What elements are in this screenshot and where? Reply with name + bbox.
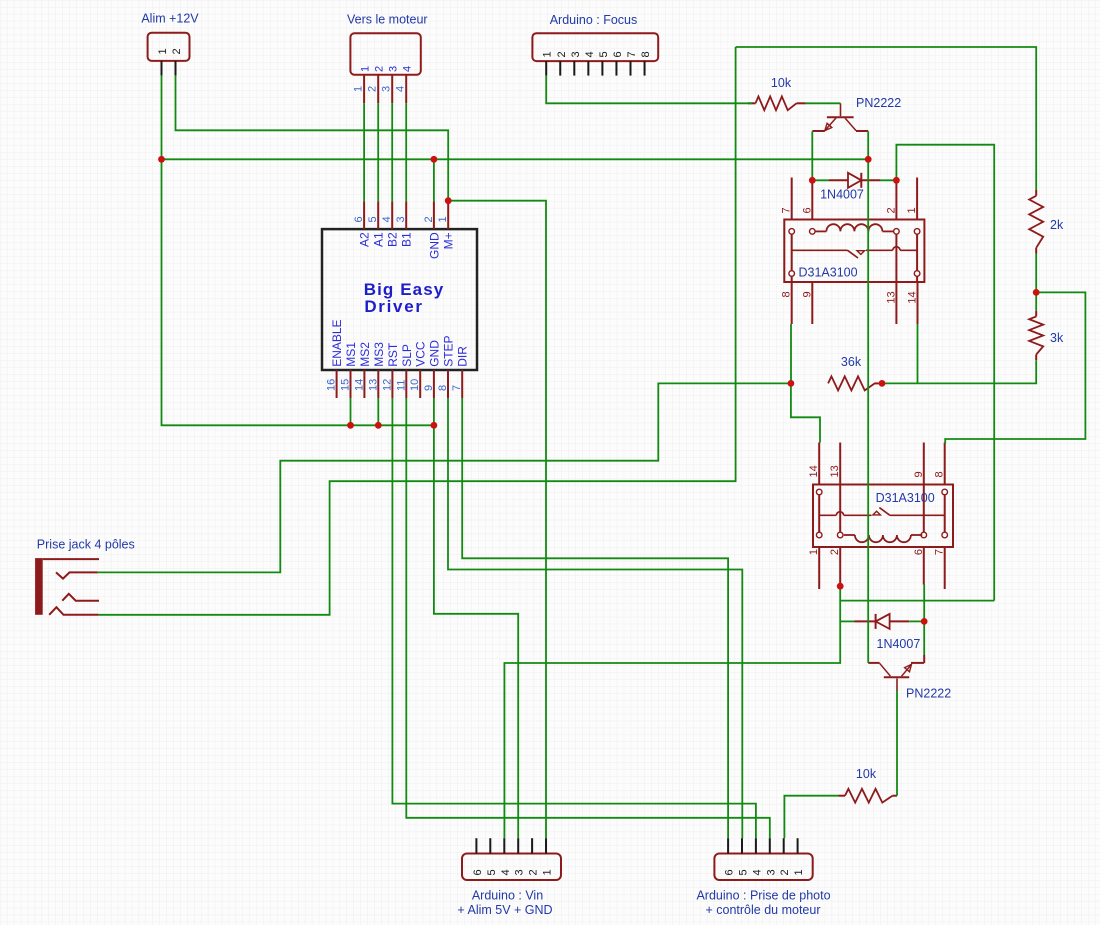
svg-text:3: 3 xyxy=(388,66,400,72)
wire between 2k and 3k xyxy=(1035,254,1037,311)
resistor R2 2k xyxy=(1029,190,1043,254)
relay K2 top pin leads xyxy=(819,443,945,485)
connector J1 pin names 1 2 xyxy=(157,48,183,54)
svg-text:3: 3 xyxy=(765,869,777,875)
relay K1 bottom pin leads xyxy=(792,282,918,324)
wire 3k bottom to 36k row xyxy=(882,360,1036,383)
wire moteur pin 3 to B2 xyxy=(391,103,393,201)
wire Focus pin 1 to R 10k xyxy=(546,76,752,104)
label R2 2k xyxy=(1050,218,1064,232)
svg-text:5: 5 xyxy=(738,869,750,875)
svg-text:3k: 3k xyxy=(1050,331,1064,345)
ic U1 top pin numbers xyxy=(353,216,449,222)
svg-text:4: 4 xyxy=(395,86,407,92)
svg-text:GND: GND xyxy=(427,232,441,259)
label R5 10k xyxy=(856,767,877,781)
connector J3 pin names 1-8 xyxy=(542,51,652,57)
svg-text:2: 2 xyxy=(528,869,540,875)
svg-text:6: 6 xyxy=(724,869,736,875)
wire moteur pin 4 to B1 xyxy=(405,103,407,201)
relay K2 pin circles xyxy=(816,489,947,538)
relay K2 box xyxy=(813,485,953,548)
connector J3 Arduino Focus box xyxy=(532,33,658,61)
wire RST to photo pin 4 xyxy=(392,398,756,838)
svg-text:RST: RST xyxy=(386,342,400,367)
svg-text:14: 14 xyxy=(353,379,365,391)
ic U1 top pin leads xyxy=(364,201,448,229)
svg-text:Driver: Driver xyxy=(364,297,423,316)
svg-text:10k: 10k xyxy=(771,76,792,90)
svg-text:1: 1 xyxy=(906,207,918,213)
svg-text:13: 13 xyxy=(829,465,841,477)
svg-text:4: 4 xyxy=(402,66,414,72)
label Q1 PN2222 xyxy=(856,96,901,110)
svg-text:7: 7 xyxy=(934,549,946,555)
svg-text:7: 7 xyxy=(626,51,638,57)
wire D2 stub right xyxy=(909,620,924,622)
label R4 36k xyxy=(841,355,862,369)
transistor Q2 PN2222 xyxy=(868,655,924,691)
ic U1 bottom pin leads xyxy=(337,370,463,398)
wire MS1 to GND rail xyxy=(350,398,352,425)
wire divider tap to relay2 pin 8 xyxy=(945,292,1085,443)
svg-text:MS2: MS2 xyxy=(358,342,372,367)
resistor R3 3k xyxy=(1029,311,1043,360)
svg-text:D31A3100: D31A3100 xyxy=(876,491,935,505)
junction collector rail xyxy=(865,156,872,163)
svg-text:B1: B1 xyxy=(400,232,414,247)
svg-text:Vers le moteur: Vers le moteur xyxy=(347,13,428,27)
svg-text:GND: GND xyxy=(427,340,441,367)
svg-text:2: 2 xyxy=(829,549,841,555)
svg-text:15: 15 xyxy=(340,379,352,391)
relay K2 bottom pin leads xyxy=(819,547,945,589)
wire moteur pin 2 to A1 xyxy=(377,103,379,201)
label K2 D31A3100 xyxy=(876,491,935,505)
svg-text:PN2222: PN2222 xyxy=(856,96,901,110)
svg-text:2: 2 xyxy=(374,66,386,72)
connector J2 Vers le moteur box xyxy=(350,33,420,74)
svg-text:9: 9 xyxy=(423,385,435,391)
svg-text:14: 14 xyxy=(808,465,820,477)
svg-text:A1: A1 xyxy=(372,232,386,247)
svg-text:36k: 36k xyxy=(841,355,862,369)
wire relay2 pin 6 to D2 xyxy=(923,585,925,622)
svg-text:PN2222: PN2222 xyxy=(906,687,951,701)
connector J4 Arduino Vin box xyxy=(462,854,561,881)
svg-text:3: 3 xyxy=(395,216,407,222)
svg-text:6: 6 xyxy=(913,549,925,555)
svg-text:MS1: MS1 xyxy=(344,342,358,367)
relay K1 top pin leads xyxy=(792,178,917,220)
svg-text:2k: 2k xyxy=(1050,218,1064,232)
ic U1 Big Easy Driver box xyxy=(322,229,477,370)
svg-text:3: 3 xyxy=(514,869,526,875)
label Vers le moteur xyxy=(347,13,428,27)
connector J5 Arduino photo box xyxy=(714,854,812,881)
wire GND bottom to Arduino Vin pin 3 xyxy=(434,398,518,838)
wire GND pin to rail xyxy=(433,159,435,201)
connector J2 pin names 1-4 xyxy=(360,66,414,72)
junction M+ node xyxy=(445,197,452,204)
junction 36k right xyxy=(879,380,886,387)
svg-text:2: 2 xyxy=(556,51,568,57)
wire Q1 collector long vertical to Q2 xyxy=(867,131,869,663)
svg-text:11: 11 xyxy=(395,380,407,391)
svg-text:1: 1 xyxy=(437,216,449,222)
svg-text:7: 7 xyxy=(781,207,793,213)
svg-text:MS3: MS3 xyxy=(372,342,386,367)
label D2 1N4007 xyxy=(877,637,921,651)
wire Q1 emitter down to diode row xyxy=(811,131,813,180)
svg-text:SLP: SLP xyxy=(400,344,414,367)
wire relay1 pin 14 down xyxy=(917,324,919,383)
ic U1 title xyxy=(364,280,445,316)
svg-text:1: 1 xyxy=(542,869,554,875)
connector J1 pin 2 stub xyxy=(175,61,177,76)
junction divider tap xyxy=(1033,289,1040,296)
svg-text:9: 9 xyxy=(801,291,813,297)
label R1 10k xyxy=(771,76,792,90)
svg-text:B2: B2 xyxy=(386,232,400,247)
svg-text:1: 1 xyxy=(360,66,372,72)
svg-text:8: 8 xyxy=(640,51,652,57)
svg-text:Arduino : Vin: Arduino : Vin xyxy=(472,889,543,903)
svg-text:2: 2 xyxy=(367,86,379,92)
wire M+ to Arduino Vin pin 1 xyxy=(448,201,546,839)
junction 36k left xyxy=(788,380,795,387)
connector J1 Alim +12V box xyxy=(148,33,190,61)
svg-text:2: 2 xyxy=(779,869,791,875)
junction D1 anode xyxy=(809,177,816,184)
svg-text:5: 5 xyxy=(598,51,610,57)
svg-text:6: 6 xyxy=(612,51,624,57)
svg-text:1: 1 xyxy=(542,51,554,57)
relay K2 coil xyxy=(844,535,923,542)
svg-text:+ Alim 5V + GND: + Alim 5V + GND xyxy=(457,903,552,917)
wire relay2 coil net horizontal xyxy=(840,600,994,602)
label Arduino : Focus xyxy=(550,13,638,27)
wire R 10k to Q1 base xyxy=(805,102,841,104)
wire MS3 to GND rail xyxy=(377,398,379,425)
connector J5 pin stubs xyxy=(728,838,798,853)
relay K2 bottom pin numbers xyxy=(808,549,946,555)
relay K2 top pin numbers xyxy=(808,465,946,477)
svg-text:5: 5 xyxy=(367,216,379,222)
svg-text:16: 16 xyxy=(326,379,338,391)
svg-text:ENABLE: ENABLE xyxy=(330,319,344,366)
ic U1 top pin names xyxy=(358,232,456,259)
svg-text:9: 9 xyxy=(913,471,925,477)
svg-text:4: 4 xyxy=(751,869,763,875)
label R3 3k xyxy=(1050,331,1064,345)
resistor R5 lead left xyxy=(839,795,846,797)
connector X1 jack body xyxy=(35,558,43,615)
label Arduino photo xyxy=(696,889,830,918)
svg-text:VCC: VCC xyxy=(414,341,428,367)
svg-text:Arduino : Focus: Arduino : Focus xyxy=(550,13,638,27)
label Prise jack 4 poles xyxy=(37,538,135,552)
svg-text:13: 13 xyxy=(367,379,379,391)
svg-text:Alim +12V: Alim +12V xyxy=(141,12,199,26)
relay K1 bottom pin numbers xyxy=(781,291,919,303)
svg-text:10k: 10k xyxy=(856,767,877,781)
svg-text:Prise jack 4 pôles: Prise jack 4 pôles xyxy=(37,538,135,552)
diode D2 1N4007 xyxy=(855,614,910,629)
junction +12V at Alim pin1 xyxy=(158,156,165,163)
relay K1 switch xyxy=(792,247,917,258)
relay K2 switch xyxy=(819,508,945,516)
connector J4 pin stubs xyxy=(476,838,546,853)
svg-text:2: 2 xyxy=(885,207,897,213)
connector X1 jack contact 3 xyxy=(62,594,99,601)
wire 2k3k top feed xyxy=(736,47,1037,190)
svg-text:6: 6 xyxy=(801,207,813,213)
wire +12V vertical from Alim pin 1 xyxy=(162,76,434,426)
svg-text:7: 7 xyxy=(451,385,463,391)
wire +12V horizontal rail xyxy=(162,158,869,160)
wire relay2 pin 2 down xyxy=(504,586,840,838)
label Alim +12V xyxy=(141,12,199,26)
wire 36k row left xyxy=(98,383,791,572)
junction GND bottom xyxy=(431,422,438,429)
relay K1 coil xyxy=(815,224,894,231)
svg-text:6: 6 xyxy=(353,216,365,222)
label Arduino Vin xyxy=(457,889,552,918)
svg-text:14: 14 xyxy=(907,291,919,303)
svg-text:2: 2 xyxy=(171,48,183,54)
svg-text:D31A3100: D31A3100 xyxy=(799,266,858,280)
ic U1 bottom pin numbers xyxy=(326,379,464,391)
wire Alim pin 2 to M+ xyxy=(176,76,449,201)
wire D2 junction to Q2 emitter xyxy=(923,621,925,655)
ic U1 bottom pin names xyxy=(330,319,470,366)
connector X1 jack tip line xyxy=(43,558,99,560)
wire jack sleeve to enable net xyxy=(99,47,736,615)
junction relay2 pin 2 xyxy=(837,583,844,590)
connector J2 pin leads xyxy=(364,75,406,103)
wire STEP to photo pin 5 xyxy=(448,398,742,838)
svg-text:3: 3 xyxy=(570,51,582,57)
svg-text:2: 2 xyxy=(423,216,435,222)
wire diode D2 anode-row left stub xyxy=(840,620,854,622)
relay K2 interior columns xyxy=(819,485,945,533)
junction MS1 xyxy=(347,422,354,429)
wire diode D1 anode stub xyxy=(812,179,829,181)
junction D1 cathode xyxy=(893,177,900,184)
svg-text:10: 10 xyxy=(409,379,421,391)
transistor Q1 PN2222 xyxy=(812,103,868,131)
junction D2 anode xyxy=(921,618,928,625)
svg-text:+ contrôle du moteur: + contrôle du moteur xyxy=(706,903,821,917)
svg-text:13: 13 xyxy=(885,291,897,303)
relay K1 box xyxy=(784,220,924,283)
connector X1 jack contact 2 xyxy=(56,572,98,578)
connector J5 pin names 6-1 xyxy=(724,869,806,875)
svg-text:1: 1 xyxy=(353,86,365,92)
svg-text:4: 4 xyxy=(584,51,596,57)
junction MS3 xyxy=(375,422,382,429)
connector J1 pin 1 stub xyxy=(161,61,163,76)
svg-text:4: 4 xyxy=(500,869,512,875)
junction GND pin rail xyxy=(431,156,438,163)
connector J2 pin numbers 1-4 xyxy=(353,86,407,92)
svg-text:6: 6 xyxy=(472,869,484,875)
wire SLP to photo pin 3 xyxy=(406,398,770,838)
label D1 1N4007 xyxy=(820,188,864,202)
svg-text:1N4007: 1N4007 xyxy=(877,637,921,651)
diode D1 1N4007 xyxy=(829,173,880,188)
resistor R4 36k xyxy=(828,376,879,390)
svg-text:STEP: STEP xyxy=(442,335,456,366)
wire relay1 pin 8 to 36k xyxy=(790,324,792,383)
connector J4 pin names 6-1 xyxy=(472,869,554,875)
resistor R5 10k xyxy=(845,789,893,803)
svg-text:DIR: DIR xyxy=(456,346,470,367)
connector X1 jack contact 4 xyxy=(49,607,98,615)
resistor R1 10k xyxy=(748,96,806,110)
svg-text:1: 1 xyxy=(793,869,805,875)
svg-text:1: 1 xyxy=(157,48,169,54)
wire diode D1 cathode stub xyxy=(880,179,896,181)
label Q2 PN2222 xyxy=(906,687,951,701)
svg-text:8: 8 xyxy=(934,471,946,477)
svg-text:1: 1 xyxy=(808,549,820,555)
relay K1 pin circles xyxy=(789,229,920,277)
svg-text:5: 5 xyxy=(486,869,498,875)
wire 36k to relay2 pin 14 xyxy=(791,383,820,442)
wire moteur pin 1 to A2 xyxy=(363,103,365,201)
svg-text:12: 12 xyxy=(381,379,393,391)
svg-text:A2: A2 xyxy=(358,232,372,247)
wire D1 cathode to relay2 pin 8 xyxy=(896,145,994,601)
label K1 D31A3100 xyxy=(799,266,858,280)
relay K1 interior columns xyxy=(792,234,917,282)
wire Q2 base to R 10k xyxy=(896,691,898,796)
wire DIR to photo pin 6 xyxy=(462,398,728,838)
relay K1 top pin numbers xyxy=(781,207,918,213)
connector J3 pin stubs xyxy=(546,61,644,76)
svg-text:3: 3 xyxy=(381,86,393,92)
svg-text:1N4007: 1N4007 xyxy=(820,188,864,202)
resistor R5 lead right xyxy=(893,795,898,797)
svg-text:M+: M+ xyxy=(442,232,456,249)
svg-text:4: 4 xyxy=(381,216,393,222)
wire R 10k to photo pin 2 xyxy=(784,796,838,839)
svg-text:8: 8 xyxy=(437,385,449,391)
svg-text:Arduino : Prise de photo: Arduino : Prise de photo xyxy=(696,889,830,903)
svg-text:8: 8 xyxy=(781,291,793,297)
